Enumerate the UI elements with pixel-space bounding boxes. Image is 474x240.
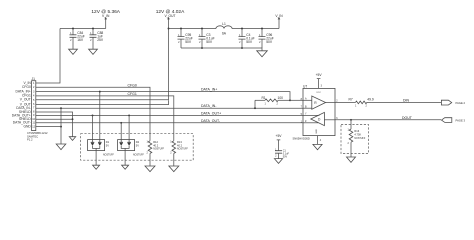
svg-text:2: 2 <box>277 103 279 106</box>
junction dot C96/rail2 <box>261 28 263 30</box>
dashed box protection group <box>81 134 194 161</box>
junction dot DATA_IN+/TVS drop <box>99 91 101 93</box>
wire rail1 V_IN <box>60 28 106 30</box>
junction dot R1/DATA_IN+ <box>289 99 291 101</box>
resistor R1 termination <box>255 96 290 106</box>
junction dot V_OUT/rail2 <box>168 28 170 30</box>
wire V_IN down to connector pin 1 <box>36 29 60 84</box>
svg-text:GND: GND <box>23 125 31 129</box>
junction dot C3/rail2 <box>201 28 203 30</box>
svg-text:50V: 50V <box>283 156 288 159</box>
wire net SHIELD row8 <box>36 112 73 137</box>
wire rail2 left segment <box>169 28 217 30</box>
wire net DATA_IN- row7 <box>36 107 303 109</box>
wire net SHIELD row10 <box>36 118 73 120</box>
wire DATA_OUT- down to TVS2 left diode <box>120 123 122 143</box>
junction dot C3/bus2 <box>201 47 203 49</box>
TVS diode pair D2 <box>118 140 145 166</box>
svg-text:6: 6 <box>33 103 35 106</box>
wire net DOUT <box>335 119 441 121</box>
capacitor C1 <box>275 148 289 158</box>
svg-text:2: 2 <box>146 151 148 154</box>
pin A U7 <box>301 98 312 101</box>
svg-text:5V: 5V <box>136 143 139 147</box>
svg-text:NOSTUFF: NOSTUFF <box>354 138 365 140</box>
svg-text:NOSTUFF: NOSTUFF <box>133 154 144 156</box>
svg-text:V_OUT: V_OUT <box>20 98 31 102</box>
junction dot DATA_OUT+/TVS2 drop <box>128 114 130 116</box>
svg-text:NOSTUFF: NOSTUFF <box>153 149 164 151</box>
svg-text:P1.2: P1.2 <box>27 138 33 142</box>
wire net CFG1 row4 <box>36 96 174 141</box>
pin GND U7 <box>316 129 322 145</box>
svg-text:2: 2 <box>70 39 72 42</box>
junction dot C4/bus2 <box>241 47 243 49</box>
svg-text:DOUT: DOUT <box>402 116 413 120</box>
capacitor C96 <box>259 29 274 49</box>
svg-text:V_IN: V_IN <box>275 14 283 18</box>
ground SHIELD small <box>69 137 75 141</box>
op-amp U7 transceiver <box>303 85 335 136</box>
svg-text:2: 2 <box>33 86 35 89</box>
pin RO U7 <box>325 99 338 102</box>
junction dot DATA_OUT+/TVS1 drop <box>92 114 94 116</box>
ground R16 <box>347 157 356 162</box>
resistor R13 <box>170 140 188 166</box>
ground left GND <box>56 144 66 150</box>
svg-text:GND: GND <box>316 129 318 134</box>
svg-text:2: 2 <box>178 41 180 44</box>
junction dot R1/DATA_IN- <box>254 107 256 109</box>
junction dot DATA_IN-/GND drop <box>60 107 62 109</box>
svg-text:7: 7 <box>33 107 35 110</box>
svg-text:9: 9 <box>33 114 35 117</box>
pin Z U7 <box>301 120 319 123</box>
svg-text:2: 2 <box>275 155 277 158</box>
svg-text:J1: J1 <box>32 77 36 81</box>
svg-text:3: 3 <box>33 91 35 94</box>
svg-text:D: D <box>318 117 321 121</box>
svg-text:+5V: +5V <box>316 73 323 77</box>
wire net CFG0 row2 <box>36 87 150 141</box>
svg-text:11: 11 <box>32 121 35 124</box>
ground under C88 <box>89 49 98 54</box>
wire net DATA_OUT- row11 <box>36 122 303 124</box>
svg-text:1: 1 <box>265 103 267 106</box>
svg-text:40.2: 40.2 <box>153 143 159 147</box>
svg-text:40.2: 40.2 <box>177 143 183 147</box>
svg-text:NOSTUFF: NOSTUFF <box>177 149 188 151</box>
junction dot C84/rail1 <box>72 28 74 30</box>
svg-text:R: R <box>314 101 317 105</box>
svg-text:2: 2 <box>199 41 201 44</box>
svg-text:DATA_OUT-: DATA_OUT- <box>201 119 221 123</box>
wire DATA_OUT+ down to TVS2 right diode <box>128 115 130 142</box>
svg-text:50V: 50V <box>206 40 213 44</box>
svg-text:8: 8 <box>33 110 35 113</box>
pin DI U7 <box>324 117 338 120</box>
wire DATA_OUT+ down to TVS1 left diode <box>92 115 94 142</box>
svg-text:3: 3 <box>321 84 323 87</box>
ground bus2 <box>257 51 268 57</box>
svg-text:2: 2 <box>239 41 241 44</box>
ground R13 <box>169 166 179 172</box>
svg-text:5V: 5V <box>106 143 109 147</box>
wire net DIN <box>367 101 441 103</box>
junction dot C88/rail1 <box>92 28 94 30</box>
wire rail2 right segment <box>232 28 279 30</box>
wire GND drop to lower ground <box>60 108 62 144</box>
resistor R16 <box>347 120 365 157</box>
svg-text:4: 4 <box>320 139 322 142</box>
capacitor C3 <box>199 29 215 49</box>
junction dot DATA_OUT-/TVS2 drop <box>120 122 122 124</box>
driver triangle U7-D <box>311 112 325 125</box>
ground R12 <box>145 166 155 172</box>
pin B U7 <box>301 106 312 109</box>
svg-text:DATA_OUT+: DATA_OUT+ <box>201 111 221 115</box>
wire net GND row12 <box>36 126 61 128</box>
ground under C84 <box>69 49 78 54</box>
svg-text:VCC: VCC <box>316 92 321 94</box>
resistor R7 <box>335 98 374 108</box>
junction dot DOUT/R16 <box>350 119 352 121</box>
capacitor C4 <box>239 29 255 49</box>
svg-text:NOSTUFF: NOSTUFF <box>103 154 114 156</box>
svg-text:50V: 50V <box>185 40 192 44</box>
svg-text:V_IN: V_IN <box>102 14 110 18</box>
svg-text:4: 4 <box>33 95 35 98</box>
svg-text:V_OUT: V_OUT <box>165 14 176 18</box>
svg-text:1: 1 <box>355 104 357 107</box>
svg-text:2: 2 <box>347 142 349 145</box>
svg-text:+5V: +5V <box>276 134 283 138</box>
label J1 part number <box>27 131 48 141</box>
svg-text:4.75K: 4.75K <box>354 133 361 137</box>
svg-text:6: 6 <box>336 117 338 120</box>
svg-text:2: 2 <box>366 104 368 107</box>
inductor L1 <box>216 22 232 36</box>
svg-text:25V: 25V <box>97 38 104 42</box>
svg-text:L1: L1 <box>222 22 226 26</box>
svg-text:2: 2 <box>170 151 172 154</box>
wire DATA_IN+ down to TVS1 right diode <box>99 92 101 143</box>
pin name labels J1 <box>12 81 32 129</box>
svg-text:CFG1: CFG1 <box>128 92 137 96</box>
resistor R12 <box>146 140 164 166</box>
wire net DATA_IN+ row3 <box>36 92 290 101</box>
svg-text:2: 2 <box>336 99 338 102</box>
svg-text:100: 100 <box>278 96 284 100</box>
svg-text:R1: R1 <box>262 96 266 100</box>
junction dot SHIELD row10 join <box>72 118 74 120</box>
node +5V at C1 <box>276 134 283 151</box>
node V_IN power header 1 <box>91 9 120 28</box>
ground C1 <box>274 159 282 164</box>
ground U7 <box>313 144 322 149</box>
receiver triangle U7-R <box>312 96 326 109</box>
wire net V_OUT row6 <box>36 100 169 104</box>
off-page connector PAGE 3 <box>442 118 466 123</box>
svg-text:50V: 50V <box>266 40 273 44</box>
ground TVS D2 <box>122 165 129 169</box>
svg-text:DATA_IN-: DATA_IN- <box>201 104 217 108</box>
node +5V at U7 <box>316 73 323 88</box>
svg-text:SN65HVD05D: SN65HVD05D <box>293 136 310 140</box>
node V_OUT power header 2 <box>156 9 185 28</box>
svg-text:2: 2 <box>90 39 92 42</box>
junction dot C4/rail2 <box>241 28 243 30</box>
svg-text:PAGE 2: PAGE 2 <box>456 101 466 105</box>
pin Y U7 <box>301 113 320 116</box>
svg-text:CFG0: CFG0 <box>22 85 31 89</box>
svg-text:DIN: DIN <box>403 99 410 103</box>
svg-text:2: 2 <box>259 41 261 44</box>
svg-text:CFG0: CFG0 <box>128 83 137 87</box>
capacitor C95 <box>178 29 193 49</box>
svg-text:16V: 16V <box>77 38 84 42</box>
node V_IN header 2 <box>275 14 283 29</box>
connector J1 <box>32 77 36 131</box>
dashed box R16 group <box>341 125 369 154</box>
pin numbers J1 <box>32 82 35 128</box>
svg-text:12: 12 <box>32 125 35 128</box>
TVS diode pair D1 <box>88 140 115 166</box>
svg-text:6A: 6A <box>222 32 227 36</box>
wire net DATA_OUT+ row9 <box>36 114 303 116</box>
svg-text:5: 5 <box>33 99 35 102</box>
wire R1 to pin A <box>290 99 303 101</box>
wire R1 left to DATA_IN- <box>254 100 256 108</box>
svg-text:49.9: 49.9 <box>367 98 374 102</box>
junction dot C95/rail2 <box>180 28 182 30</box>
capacitor C88 <box>90 29 104 50</box>
capacitor C84 <box>70 29 85 50</box>
svg-text:PAGE 3: PAGE 3 <box>456 119 466 123</box>
junction dot GND row12 join <box>60 126 62 128</box>
ground TVS D1 <box>93 165 100 169</box>
svg-text:DATA_IN+: DATA_IN+ <box>201 88 217 92</box>
wire bus2 bottom <box>181 48 262 51</box>
svg-text:50V: 50V <box>246 40 253 44</box>
svg-text:R7: R7 <box>349 98 353 102</box>
off-page connector PAGE 2 <box>441 100 465 105</box>
svg-text:1: 1 <box>33 82 35 85</box>
wire V_OUT down to connector row 5 <box>36 29 169 100</box>
